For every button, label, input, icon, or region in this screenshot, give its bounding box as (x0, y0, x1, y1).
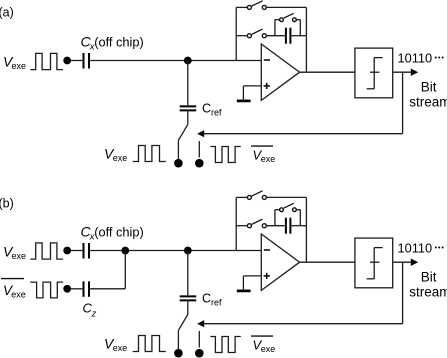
node input dot b (63, 247, 71, 255)
wire op-amp output b (300, 261, 355, 263)
svg-text:exe: exe (12, 251, 27, 261)
wire top row left b (236, 196, 247, 198)
svg-text:exe: exe (12, 61, 27, 71)
wire top row left (236, 6, 247, 8)
throw contact dot 1 (174, 159, 183, 168)
feedback network left vertical wire b (235, 197, 237, 250)
comparator box b (355, 238, 393, 288)
wire second row middle b (267, 225, 285, 227)
wire second row left b (236, 225, 247, 227)
waveform Vexe (pulses up, bottom) b (133, 336, 166, 352)
svg-text:10110: 10110 (398, 50, 433, 65)
reset switch branch right stub b (297, 209, 301, 211)
svg-text:10110: 10110 (398, 240, 433, 255)
svg-text:(a): (a) (0, 6, 14, 20)
feedback network right vertical wire (305, 7, 307, 72)
throw contact dot 2 b (195, 349, 204, 358)
svg-text:stream: stream (409, 285, 447, 300)
wire (71, 288, 82, 290)
capacitor Cref (180, 105, 197, 107)
svg-text:exe: exe (113, 343, 128, 353)
feedback wire vertical b (402, 262, 404, 324)
waveform Vexe b (pulses up) (30, 243, 63, 259)
comparator step symbol (367, 88, 375, 90)
wire to throw 1 (177, 140, 179, 159)
reset switch branch right stub (297, 19, 301, 21)
wire Cz to junction (90, 288, 125, 290)
op-amp minus sign (264, 59, 270, 61)
capacitor Cx (83, 53, 85, 69)
waveform Vexe-bar (pulses down) b (30, 282, 63, 298)
svg-text:C: C (202, 292, 211, 306)
svg-text:z: z (91, 309, 97, 320)
feedback wire horizontal b (204, 323, 403, 325)
label Vexe-bar input overline (1, 278, 24, 280)
comparator step symbol b (367, 278, 375, 280)
waveform Vexe-bar (pulses down) b (210, 337, 240, 353)
svg-text:(off chip): (off chip) (94, 225, 144, 240)
output arrow head (411, 69, 418, 76)
wire below Cref (187, 111, 189, 124)
svg-text:Bit: Bit (421, 270, 437, 285)
capacitor Cz (83, 281, 85, 297)
label Vexe-bar overline (251, 145, 273, 147)
capacitor Cref b (180, 295, 197, 297)
wire to op-amp b (90, 250, 261, 252)
label Vexe-bar overline b (251, 335, 273, 337)
node dot b (184, 247, 192, 255)
throw 2 stub (198, 141, 200, 158)
throw 2 stub b (198, 331, 200, 348)
op-amp U2 (261, 234, 299, 290)
wire to throw 1 b (177, 330, 179, 349)
wire comparator output (393, 71, 412, 73)
svg-text:ref: ref (211, 298, 222, 308)
switch S1 b (top row) (247, 195, 251, 199)
capacitor Cx b (83, 243, 85, 259)
ground b (237, 290, 251, 293)
throw contact dot 1 b (174, 349, 183, 358)
output arrow head b (411, 259, 418, 266)
switch lever (178, 125, 187, 141)
wire below Cref b (187, 301, 189, 314)
wire top row right b (267, 196, 307, 198)
svg-text:C: C (202, 102, 211, 116)
waveform Vexe-bar (pulses down) (210, 147, 240, 163)
reset switch branch left stub (274, 20, 276, 36)
wire comparator output b (393, 261, 412, 263)
wire Cref branch (187, 61, 189, 106)
svg-text:stream: stream (409, 95, 447, 110)
op-amp plus sign (264, 85, 270, 87)
throw contact dot 2 (195, 159, 204, 168)
reset switch branch left stub b (274, 210, 276, 226)
waveform Vexe (pulses up) (30, 53, 63, 69)
wire top row right (267, 6, 307, 8)
svg-text:ref: ref (211, 108, 222, 118)
svg-text:exe: exe (261, 344, 276, 354)
svg-text:exe: exe (261, 154, 276, 164)
wire to op-amp (90, 60, 261, 62)
wire second row left (236, 35, 247, 37)
feedback network left vertical wire (235, 7, 237, 60)
wire plus input (243, 85, 261, 87)
wire (71, 250, 82, 252)
op-amp plus sign b (264, 275, 270, 277)
svg-text:exe: exe (113, 153, 128, 163)
switch S1 (top row) (247, 5, 251, 9)
node dot Cz junction (121, 247, 129, 255)
feedback wire vertical (402, 72, 404, 134)
svg-text:(off chip): (off chip) (94, 35, 144, 50)
op-amp minus sign b (264, 249, 270, 251)
wire second row right b (292, 225, 307, 227)
wire Cref branch b (187, 251, 189, 296)
feedback wire horizontal (204, 133, 403, 135)
wire second row middle (267, 35, 285, 37)
wire second row right (292, 35, 307, 37)
node input dot (63, 57, 71, 65)
ground (237, 100, 251, 103)
reset switch S3 (280, 18, 284, 22)
feedback network right vertical wire b (305, 197, 307, 262)
wire plus input b (243, 275, 261, 277)
svg-text:Bit: Bit (421, 80, 437, 95)
wire (71, 60, 82, 62)
node input dot 2 b (63, 285, 71, 293)
integrating capacitor (285, 28, 287, 44)
switch S2 b (second row) (247, 224, 251, 228)
reset switch S3 b (280, 208, 284, 212)
integrating capacitor b (285, 218, 287, 234)
feedback arrow head b (197, 320, 204, 327)
switch lever b (178, 315, 187, 331)
op-amp U1 (261, 44, 299, 100)
node dot (184, 57, 192, 65)
comparator box (355, 48, 393, 98)
waveform Vexe (pulses up, bottom) (133, 146, 166, 162)
wire op-amp output (300, 71, 355, 73)
feedback arrow head (197, 130, 204, 137)
switch S2 (second row) (247, 34, 251, 38)
svg-text:exe: exe (11, 290, 26, 300)
svg-text:(b): (b) (0, 197, 14, 211)
